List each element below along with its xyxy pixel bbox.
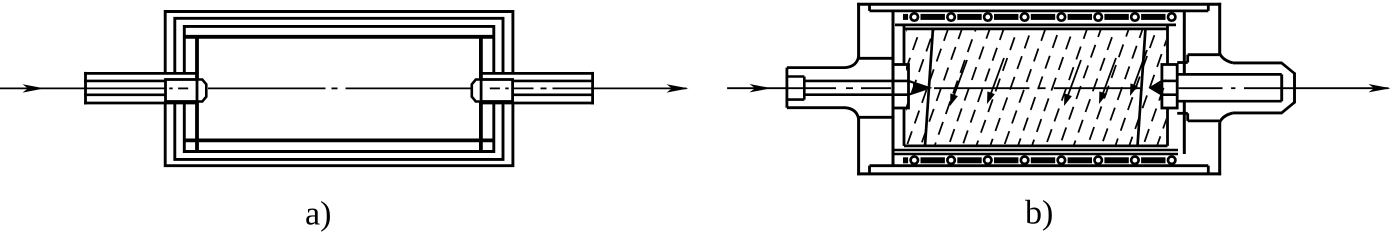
svg-text:b): b)	[1025, 195, 1053, 232]
svg-text:a): a)	[305, 196, 331, 233]
